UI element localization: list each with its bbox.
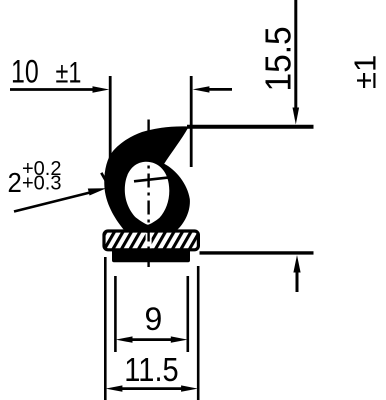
svg-text:9: 9	[145, 301, 163, 337]
dimension line 10 right part with arrow	[193, 86, 232, 92]
horizontal center tick inside hole	[134, 178, 168, 182]
extension line left of 10 dimension	[109, 76, 112, 164]
extension line right of 10 dimension	[190, 76, 193, 167]
vertical dash-dot centerline	[147, 120, 149, 268]
extension line inner right of 9	[187, 276, 190, 352]
bottom reference line at base underside	[200, 251, 314, 254]
svg-text:+0.3: +0.3	[22, 173, 61, 195]
svg-text:±1: ±1	[56, 56, 82, 89]
adhesive strip bar	[112, 249, 190, 262]
tick mark across bulb wall	[101, 173, 108, 185]
dimension line 11.5 with outward arrows	[106, 385, 198, 391]
seal bulb profile with hole and tail	[104, 126, 190, 230]
dimension line 10 left part with arrow	[10, 86, 109, 92]
leader line from wall thickness label	[14, 188, 106, 211]
vertical dimension line 15.5 with down arrow	[293, 0, 300, 125]
dimension line 9 with outward arrows	[116, 336, 188, 342]
extension line outer left of 11.5	[104, 257, 107, 400]
svg-text:10: 10	[11, 55, 39, 91]
svg-text:±1: ±1	[348, 55, 383, 89]
top reference line at seal tip	[187, 125, 314, 129]
svg-text:11.5: 11.5	[124, 351, 178, 388]
svg-text:15.5: 15.5	[259, 26, 298, 91]
bottom arrow of 15.5 dimension pointing up	[293, 255, 300, 292]
svg-text:2: 2	[8, 167, 22, 198]
extension line outer right of 11.5	[197, 266, 200, 400]
extension line inner left of 9	[114, 276, 117, 352]
hatched base rectangle	[104, 231, 198, 250]
white gap in hatch for centerline	[146, 233, 152, 248]
